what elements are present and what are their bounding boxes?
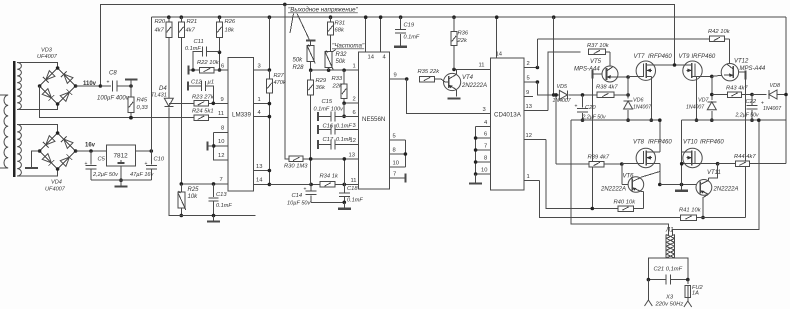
resistor R38 4k7: [597, 92, 614, 98]
ground at VD4: [32, 151, 40, 167]
svg-text:C11: C11: [194, 39, 204, 45]
svg-text:7812: 7812: [114, 153, 129, 160]
svg-text:50k: 50k: [336, 59, 347, 65]
svg-text:R44 4k7: R44 4k7: [734, 154, 756, 160]
wire NE556 pin2 line: [344, 102, 359, 104]
svg-text:6: 6: [353, 110, 356, 116]
svg-text:13: 13: [526, 104, 532, 110]
svg-text:VT12: VT12: [734, 58, 749, 64]
svg-text:VT4: VT4: [462, 75, 474, 81]
svg-text:R30 1M3: R30 1M3: [284, 164, 308, 170]
VT5 emitter to VT7 gate node: [616, 76, 628, 78]
svg-text:10: 10: [393, 161, 399, 167]
wire +110V top rail: [100, 4, 674, 86]
capacitor C8 100uF 400v: [99, 84, 103, 88]
resistor R33 22k: [343, 70, 345, 84]
wire C14 bottom to C18 ground: [311, 201, 344, 203]
svg-text:C20: C20: [585, 105, 596, 111]
svg-text:VD8: VD8: [770, 83, 781, 89]
svg-text:TL431: TL431: [151, 93, 167, 99]
diode VD7 1N4007: [707, 102, 716, 110]
VT7 source down to node A rail: [650, 76, 652, 120]
svg-text:VD6: VD6: [633, 98, 644, 104]
svg-text:10k: 10k: [188, 194, 199, 200]
svg-text:18k: 18k: [225, 28, 235, 34]
svg-text:47µF 16v: 47µF 16v: [130, 172, 155, 178]
svg-text:C16: C16: [323, 124, 334, 130]
VT8 source down: [659, 164, 661, 185]
svg-text:R22 10k: R22 10k: [197, 60, 220, 66]
wire border vertical to R44: [785, 120, 787, 164]
bridge rectifier VD4 UF4007: [40, 133, 76, 169]
wire VT10 source-gate line to VT11 collector: [682, 163, 718, 165]
capacitor C18 0.1mF: [343, 184, 345, 192]
VT7 drain to +110 bar: [645, 64, 647, 67]
svg-text:4k7: 4k7: [186, 28, 196, 34]
svg-text:8: 8: [393, 148, 396, 154]
svg-text:C10: C10: [154, 157, 165, 163]
svg-text:R28: R28: [293, 65, 305, 71]
wire +12V to R37 via rail tap: [552, 15, 556, 19]
svg-text:1N4007: 1N4007: [763, 106, 782, 112]
resistor R36 22k: [452, 15, 456, 19]
svg-text:2,2µF 50v: 2,2µF 50v: [92, 172, 119, 178]
node on +110V rail for R30: [283, 3, 287, 7]
VT8 gate wire: [622, 163, 644, 165]
svg-text:C8: C8: [109, 71, 117, 77]
wire Q1 output to gate drive line: [536, 39, 538, 68]
svg-text:8: 8: [484, 156, 487, 162]
ground under 7812: [120, 180, 122, 185]
svg-text:8: 8: [221, 126, 224, 132]
pin 14 lead: [365, 17, 367, 52]
svg-text:12: 12: [350, 138, 356, 144]
svg-text:UF4007: UF4007: [37, 54, 58, 60]
diode VD5 1N4007: [559, 90, 567, 99]
svg-text:6: 6: [484, 132, 487, 138]
pin 4 lead: [380, 17, 382, 52]
pin 14 lead: [496, 17, 498, 58]
svg-text:16v: 16v: [85, 143, 96, 149]
svg-text:3: 3: [483, 107, 486, 113]
wire VT9 gate node vertical: [711, 76, 713, 99]
pins 4 6 7 8 10 bracket grounded: [476, 126, 491, 128]
wire: [17, 125, 57, 134]
svg-text:VT8: VT8: [633, 140, 645, 146]
capacitor C15 0.1mF 100v: [317, 112, 319, 121]
svg-text:0.1mF: 0.1mF: [185, 46, 201, 52]
transformer T1 core: [13, 61, 16, 177]
wire 7812 ground lead: [120, 166, 122, 180]
svg-text:R32: R32: [336, 52, 348, 58]
svg-text:9: 9: [221, 97, 224, 103]
svg-text:2N2222A: 2N2222A: [713, 187, 739, 193]
transformer T1 secondary winding 2: [17, 125, 21, 177]
svg-text:13: 13: [349, 153, 355, 159]
svg-text:"Частота": "Частота": [332, 43, 365, 50]
VT6 collector to VT8 source: [640, 172, 659, 178]
pins 5 8 10 bracket: [390, 139, 406, 141]
diode VD6 1N4007: [627, 98, 629, 100]
resistor R29 36k: [310, 70, 312, 80]
VT6 emitter down to R40 line: [640, 191, 643, 193]
transistor VT5 MPS-A44: [609, 52, 611, 66]
transformer T1 secondary winding 1: [17, 63, 21, 110]
svg-text:14: 14: [496, 52, 503, 58]
capacitor C21 0.1mF: [648, 279, 666, 281]
svg-text:IRFP460: IRFP460: [700, 140, 724, 146]
svg-text:R36: R36: [458, 31, 469, 37]
MOSFET VT7 IRFP460: [636, 61, 655, 80]
svg-text:D4: D4: [159, 86, 167, 92]
leader line second: [290, 14, 294, 34]
svg-text:36k: 36k: [316, 85, 326, 91]
svg-text:µ1: µ1: [208, 80, 215, 86]
svg-text:R37 10k: R37 10k: [587, 43, 610, 49]
pin 13 to R37: [524, 109, 548, 111]
svg-text:+: +: [304, 187, 307, 193]
svg-text:IRFP460: IRFP460: [692, 54, 716, 60]
svg-text:5: 5: [393, 134, 396, 140]
node R45 on -110v rail: [129, 116, 133, 120]
resistor R45 0.33: [130, 86, 132, 98]
svg-text:VD3: VD3: [41, 48, 53, 54]
transistor VT4 2N2222A: [444, 73, 461, 90]
svg-text:3: 3: [258, 64, 261, 70]
svg-text:R27: R27: [274, 73, 285, 79]
wire D4 reference to pin9 line: [169, 102, 194, 104]
svg-text:Л1: Л1: [665, 228, 673, 234]
wire R20 bottom to D4: [168, 37, 170, 98]
pins 8 10 12 bracket: [214, 131, 228, 133]
svg-text:UF4007: UF4007: [45, 187, 66, 193]
svg-text:R45: R45: [137, 98, 148, 104]
svg-text:R29: R29: [316, 78, 327, 84]
wire node A rail: [571, 119, 660, 121]
wire to X3 left pin: [647, 280, 649, 300]
svg-text:C12: C12: [191, 80, 202, 86]
svg-text:X3: X3: [665, 295, 674, 301]
pin 1 to R41: [524, 179, 540, 181]
VT11 collector lead: [707, 178, 709, 181]
wire VT5 base bar down to R40 line: [591, 79, 593, 209]
wire under 7812: [91, 179, 151, 181]
wire NE556 pin 9: [390, 78, 407, 80]
chassis bar above C8: [129, 84, 133, 88]
VT11 emitter down to R41 line: [703, 194, 708, 217]
wire long drive line to R42: [537, 38, 709, 40]
transistor VT6 2N2222A: [622, 184, 628, 186]
wire source bus to VT11 base: [660, 184, 696, 186]
potentiometer R32 50k: [325, 51, 332, 67]
pin 1 stub: [254, 103, 270, 105]
svg-text:9: 9: [526, 90, 529, 96]
capacitor C20 2.2uF 50v: [582, 95, 584, 108]
diode VD8 1N4007: [752, 94, 767, 96]
svg-text:220v 50Hz: 220v 50Hz: [655, 302, 684, 308]
pins 2 and 5 tied: [524, 67, 538, 69]
wire D4 anode down to ground rail: [169, 108, 256, 216]
VT9 source down to node B rail: [696, 76, 698, 120]
wire 110v output: [76, 85, 101, 87]
svg-text:22k: 22k: [457, 38, 468, 44]
VT12 base terminal bar: [738, 71, 745, 73]
MOSFET VT8 IRFP460: [636, 148, 655, 167]
wire ground rail under R25: [169, 215, 214, 217]
wire R29 bottom to pin13 line: [310, 95, 312, 185]
svg-text:IRFP460: IRFP460: [648, 54, 672, 60]
svg-text:100µF 400v: 100µF 400v: [97, 96, 130, 102]
svg-text:3: 3: [353, 123, 356, 129]
VT7 gate wire: [628, 75, 643, 77]
wire VT7 gate node vertical: [627, 77, 629, 99]
resistor R22 10k: [187, 66, 189, 75]
svg-text:110v: 110v: [83, 81, 97, 87]
pin 9 stub: [524, 96, 533, 98]
svg-text:9: 9: [394, 73, 397, 79]
svg-text:MPS-A44: MPS-A44: [574, 67, 600, 73]
svg-text:R38 4k7: R38 4k7: [596, 85, 618, 91]
flip-flop IC CD4013A: [491, 58, 524, 190]
resistor R24 5k1: [192, 117, 194, 119]
svg-text:1N4007: 1N4007: [633, 105, 652, 111]
svg-text:C19: C19: [404, 23, 415, 29]
wire NE556 pin1 line: [311, 69, 359, 71]
wire gate node down to VT6 base: [621, 164, 623, 185]
node R38 left: [581, 93, 585, 97]
svg-text:C18: C18: [347, 186, 358, 192]
svg-text:C15: C15: [322, 99, 333, 105]
svg-text:VD7: VD7: [698, 98, 709, 104]
wire R21 bottom to LM339 pin7 line: [180, 37, 182, 184]
svg-text:VT9: VT9: [679, 54, 691, 60]
svg-text:0.1mF: 0.1mF: [404, 35, 420, 41]
MOSFET VT9 IRFP460 (mirrored): [683, 61, 702, 80]
svg-text:2,2µF 50v: 2,2µF 50v: [582, 114, 606, 120]
resistor R20 4k7: [167, 15, 171, 19]
svg-text:R40 10k: R40 10k: [614, 200, 637, 206]
VT9 drain to +110 bar: [691, 64, 693, 67]
capacitor C13 0.1mF: [213, 184, 215, 197]
svg-text:R43 4k7: R43 4k7: [726, 86, 748, 92]
capacitor C14 10uF 50v: [309, 183, 313, 187]
voltage regulator 7812: [107, 145, 136, 166]
svg-text:2,2µF 50v: 2,2µF 50v: [735, 113, 759, 119]
capacitor C22 2.2uF 50v: [750, 93, 754, 97]
resistor R43 4k7: [712, 94, 728, 96]
wire: [17, 169, 57, 176]
resistor R26 18k: [218, 15, 222, 19]
svg-text:+: +: [575, 104, 578, 110]
potentiometer R28 50k: [310, 41, 312, 45]
svg-text:12: 12: [218, 153, 224, 159]
svg-text:0.1mF: 0.1mF: [347, 198, 363, 204]
pin 12 to R39: [524, 138, 546, 140]
svg-text:1: 1: [353, 64, 356, 70]
svg-text:R34 1k: R34 1k: [320, 174, 339, 180]
VT4 emitter to ground: [456, 90, 458, 97]
wire +12V rail: [151, 16, 786, 18]
svg-text:R41 10k: R41 10k: [679, 208, 702, 214]
wire 16v output: [76, 150, 107, 152]
bridge rectifier VD3 UF4007: [40, 68, 76, 104]
capacitor C10 47uF 16v: [136, 150, 152, 152]
svg-text:10: 10: [218, 139, 224, 145]
svg-text:R20: R20: [155, 19, 166, 25]
svg-text:2N2222A: 2N2222A: [600, 187, 626, 193]
wire pin2 to pin6 vertical: [343, 103, 345, 116]
svg-text:+: +: [85, 161, 88, 167]
svg-text:C13: C13: [216, 192, 227, 198]
svg-text:+: +: [107, 80, 110, 86]
svg-text:R31: R31: [335, 21, 346, 27]
transistor VT11 2N2222A: [696, 180, 712, 196]
svg-text:11: 11: [479, 63, 485, 69]
svg-text:11: 11: [351, 178, 357, 184]
svg-text:50k: 50k: [293, 58, 304, 64]
svg-text:12: 12: [526, 133, 532, 139]
svg-text:R35 22k: R35 22k: [418, 69, 441, 75]
resistor R27 470k: [266, 79, 272, 93]
pin 7 with terminal: [390, 177, 406, 179]
wire node B rail: [682, 119, 786, 121]
fuse FU2 1A: [687, 280, 689, 284]
svg-text:0.1mF 100v: 0.1mF 100v: [314, 107, 345, 113]
wire pin9 down to CD4013 pin3: [407, 79, 491, 113]
capacitor C19 0.1mF: [399, 15, 403, 19]
svg-text:10µF 50v: 10µF 50v: [287, 201, 312, 207]
VT5 base terminal bar: [592, 73, 602, 75]
pins 3 1 4 vertical with R27: [254, 69, 270, 71]
svg-text:R26: R26: [225, 19, 236, 25]
wire +12V feed up to rail: [150, 17, 152, 151]
svg-text:2: 2: [353, 97, 356, 103]
resistor R41 10k: [681, 215, 697, 221]
timer IC NE556N: [359, 52, 390, 189]
op-amp LM339: [228, 58, 254, 191]
svg-text:2N2222A: 2N2222A: [461, 83, 487, 89]
svg-text:NE556N: NE556N: [362, 116, 385, 123]
wire: [17, 63, 57, 69]
resistor R21 4k7: [180, 15, 184, 19]
svg-text:1N4007: 1N4007: [553, 98, 572, 104]
svg-text:C14: C14: [292, 193, 303, 199]
svg-text:11: 11: [218, 111, 224, 117]
transistor VT12 MPS-A44 (mirrored): [729, 39, 731, 64]
svg-text:7: 7: [484, 144, 487, 150]
wire: [17, 104, 57, 110]
transformer T1 primary winding: [4, 95, 8, 168]
resistor R42 10k: [709, 36, 724, 42]
svg-text:R33: R33: [332, 76, 343, 82]
resistor R39 4k7: [555, 95, 557, 164]
svg-text:VD4: VD4: [51, 180, 62, 186]
svg-text:R21: R21: [187, 19, 198, 25]
wire pin13 to pin11 vertical: [343, 159, 345, 185]
wire -110v rail from bridge: [40, 86, 194, 118]
wire +12V rail right end down: [785, 17, 787, 120]
svg-text:R25: R25: [188, 187, 200, 193]
pin 4 stub: [254, 116, 270, 118]
svg-text:C17: C17: [323, 137, 334, 143]
svg-text:0.1mF: 0.1mF: [336, 124, 352, 130]
svg-text:MPS-A44: MPS-A44: [740, 66, 766, 72]
svg-text:+: +: [145, 161, 148, 167]
potentiometer R25 10k: [180, 184, 182, 192]
capacitor C12 1u: [187, 82, 189, 91]
ground at source bus: [681, 185, 683, 190]
resistor R44 4k7: [718, 163, 736, 165]
svg-text:C5: C5: [98, 157, 106, 163]
svg-text:10: 10: [481, 168, 487, 174]
svg-text:2: 2: [527, 61, 530, 67]
wire choke bottom to C21 loop: [648, 258, 670, 280]
node B rail left end down to source bus: [681, 120, 683, 184]
capacitor C5 2.2uF 50v: [89, 149, 93, 153]
svg-text:C21 0,1mF: C21 0,1mF: [654, 267, 683, 273]
wire R26 bottom to pin6: [219, 37, 221, 70]
svg-text:1A: 1A: [692, 291, 699, 297]
resistor R34 1k: [320, 182, 335, 188]
svg-text:VT10: VT10: [683, 140, 698, 146]
svg-text:22k: 22k: [332, 84, 343, 90]
capacitor C11 0.1mF: [193, 52, 202, 70]
resistor R40 10k: [618, 206, 634, 212]
svg-text:LM339: LM339: [232, 112, 251, 119]
MOSFET VT10 IRFP460 (mirrored): [683, 148, 702, 167]
svg-text:VT5: VT5: [590, 59, 602, 65]
svg-text:VT7: VT7: [634, 54, 646, 60]
svg-text:1: 1: [527, 174, 530, 180]
resistor R23 27k: [193, 102, 195, 104]
resistor R30 1M3: [285, 4, 289, 159]
wire VT12 base bar down to R41 line: [744, 80, 746, 218]
svg-text:CD4013A: CD4013A: [494, 111, 522, 118]
svg-text:5: 5: [527, 76, 530, 82]
svg-text:C22: C22: [746, 99, 757, 105]
svg-text:68k: 68k: [335, 28, 345, 34]
VT4 collector to CD4013 pin 11: [456, 69, 458, 74]
wire R27 pull-up to +12V rail: [268, 15, 272, 19]
resistor R37 10k: [589, 49, 606, 55]
svg-text:"Выходное напряжение": "Выходное напряжение": [288, 7, 359, 14]
resistor R35 22k: [420, 76, 435, 82]
svg-text:14: 14: [256, 178, 263, 184]
svg-text:1: 1: [258, 97, 261, 103]
pin 14 line to NE556 pin 11: [254, 183, 270, 185]
svg-text:1N4007: 1N4007: [686, 105, 705, 111]
VT9 gate wire: [695, 75, 712, 77]
leader line to R28: [297, 14, 310, 41]
resistor R31 68k: [329, 15, 333, 19]
FET drain bar top left: [646, 64, 692, 66]
svg-text:VT6: VT6: [623, 174, 635, 180]
wire node A to output choke: [571, 120, 668, 234]
VT12 emitter to VT9 gate node: [712, 75, 722, 76]
pin 13 stub: [254, 170, 270, 172]
svg-text:6: 6: [221, 64, 224, 70]
svg-text:7: 7: [220, 177, 223, 183]
zener D4 TL431: [164, 98, 173, 106]
VT8 drain up to node A rail: [659, 120, 661, 152]
svg-text:0.1mF: 0.1mF: [216, 203, 232, 209]
wire node B to output choke: [673, 120, 759, 234]
svg-text:VD5: VD5: [557, 84, 568, 90]
svg-text:13: 13: [256, 164, 262, 170]
svg-text:4k7: 4k7: [155, 28, 165, 34]
capacitor C16 0.1mF: [317, 125, 319, 134]
pin 7 line with R25 and C13: [181, 183, 228, 185]
